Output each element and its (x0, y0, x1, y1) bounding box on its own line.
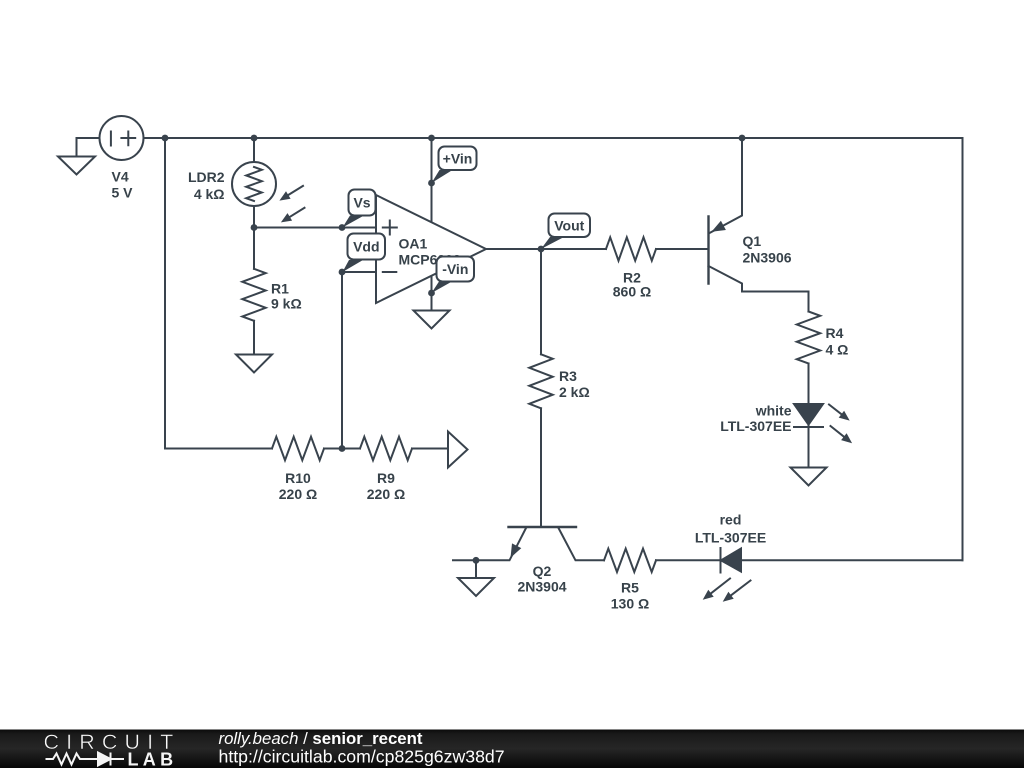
resistor R9 (360, 437, 412, 460)
resistor R2 (606, 237, 656, 260)
svg-text:R9: R9 (377, 470, 395, 486)
svg-text:220 Ω: 220 Ω (279, 486, 317, 502)
wire: R2 to Q1 base (656, 248, 709, 250)
svg-text:4 kΩ: 4 kΩ (194, 186, 225, 202)
svg-text:9 kΩ: 9 kΩ (271, 296, 302, 312)
transistor Q2 (453, 527, 604, 560)
wire: R9 to output flag (412, 448, 448, 450)
svg-text:220 Ω: 220 Ω (367, 486, 405, 502)
svg-text:Vs: Vs (353, 195, 370, 211)
wire: + input from LDR junction to op-amp (254, 227, 376, 229)
svg-text:http://circuitlab.com/cp825g6z: http://circuitlab.com/cp825g6zw38d7 (219, 747, 505, 767)
svg-text:+Vin: +Vin (443, 151, 473, 167)
op-amp OA1 positive supply pin (431, 138, 433, 222)
svg-text:4 Ω: 4 Ω (826, 342, 849, 358)
net flag +Vin (432, 147, 477, 184)
ground (Q2) (458, 578, 494, 596)
svg-text:R5: R5 (621, 580, 639, 596)
wire: Vdd node down to R9/R10 junction (341, 272, 343, 449)
resistor R10 (272, 437, 324, 460)
net flag -Vin (432, 257, 475, 294)
resistor R3 (529, 354, 552, 408)
wire: LDR2 branch (253, 138, 255, 228)
wire: Q2 emitter ground stem (475, 560, 477, 578)
svg-text:Q1: Q1 (743, 233, 762, 249)
svg-text:2 kΩ: 2 kΩ (559, 384, 590, 400)
ground (V4) (58, 157, 95, 175)
svg-text:5 V: 5 V (112, 185, 134, 201)
svg-text:860 Ω: 860 Ω (613, 284, 651, 300)
svg-text:LTL-307EE: LTL-307EE (720, 418, 791, 434)
net flag Vs (343, 190, 376, 228)
wire: R10 to R9 (324, 448, 360, 450)
svg-text:V4: V4 (112, 169, 129, 185)
svg-text:rolly.beach / senior_recent: rolly.beach / senior_recent (219, 729, 423, 748)
svg-text:R1: R1 (271, 281, 289, 297)
svg-text:R4: R4 (826, 325, 844, 341)
LED red LTL-307EE (703, 548, 751, 602)
op-amp OA1 (376, 195, 486, 303)
svg-text:Vout: Vout (554, 218, 584, 234)
wire: right vertical rail (962, 138, 964, 560)
LED white LTL-307EE (794, 404, 852, 443)
wire: - input stub (342, 271, 376, 273)
svg-text:OA1: OA1 (399, 236, 428, 252)
wire: red LED anode to right rail (741, 559, 963, 561)
svg-text:Q2: Q2 (533, 563, 552, 579)
wire: R1 to ground (253, 321, 255, 355)
svg-text:LDR2: LDR2 (188, 169, 225, 185)
ground (R1) (236, 355, 272, 373)
svg-text:130 Ω: 130 Ω (611, 596, 649, 612)
voltage source V4 (77, 116, 144, 160)
resistor R5 (604, 549, 656, 572)
svg-text:LTL-307EE: LTL-307EE (695, 530, 766, 546)
wire: R3 to Q2 base (540, 408, 542, 527)
wire: R1 branch (253, 228, 255, 269)
svg-text:LAB: LAB (128, 750, 178, 768)
footer bar (0, 730, 1024, 768)
wire: op-amp output to R2 (486, 248, 606, 250)
ground (op-amp) (414, 311, 450, 329)
svg-text:2N3904: 2N3904 (517, 579, 566, 595)
wire: left branch down to R10 (165, 138, 272, 449)
wire: R3 branch from Vout (540, 249, 542, 354)
node output arrow flag (448, 432, 468, 468)
net flag Vdd (343, 234, 386, 273)
svg-text:red: red (720, 512, 742, 528)
svg-text:R3: R3 (559, 368, 577, 384)
wire: R4 to white LED (808, 364, 810, 468)
logo resistor+diode (46, 753, 125, 766)
svg-text:2N3906: 2N3906 (743, 250, 792, 266)
resistor R1 (242, 269, 265, 321)
resistor R4 (797, 312, 820, 364)
svg-text:Vdd: Vdd (353, 239, 379, 255)
op-amp OA1 negative supply pin (431, 276, 433, 311)
net flag Vout (541, 214, 590, 250)
transistor Q1 (709, 138, 809, 292)
svg-text:-Vin: -Vin (442, 261, 468, 277)
ground (white LED) (791, 468, 827, 486)
LDR LDR2 (232, 162, 305, 222)
wire: top rail from V4 to right corner (144, 137, 963, 139)
svg-text:R10: R10 (285, 470, 311, 486)
wire: R5 to red LED (656, 559, 721, 561)
wire: Q1 collector to R4 (808, 292, 810, 312)
svg-text:white: white (755, 403, 792, 419)
